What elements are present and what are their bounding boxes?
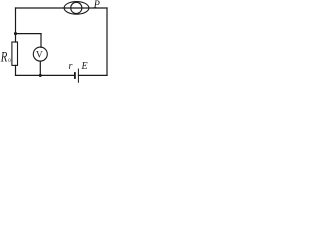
svg-text:P: P	[93, 0, 100, 11]
node: junction dot left branch	[14, 32, 17, 35]
lamp P: inner circle	[71, 2, 82, 13]
node: junction dot bottom rail	[39, 74, 42, 77]
lamp P: outer ellipse	[64, 2, 89, 15]
wire bottom rail left: resistor leg to battery	[16, 74, 74, 76]
wire bottom rail right: battery to right corner	[79, 74, 108, 76]
svg-text:R: R	[0, 48, 7, 65]
wire voltmeter branch vertical down to meter	[40, 34, 42, 48]
voltmeter V circle	[33, 47, 47, 61]
svg-text:V: V	[36, 51, 43, 61]
svg-text:0: 0	[8, 59, 11, 64]
resistor R0 body	[12, 42, 18, 65]
wire resistor bottom to bottom rail	[15, 65, 17, 75]
wire left side vertical top-left corner down to junction	[15, 8, 17, 34]
wire voltmeter branch horizontal	[16, 33, 42, 35]
wire voltmeter bottom lead	[39, 61, 41, 75]
svg-text:E: E	[81, 61, 88, 72]
battery positive plate (long thin)	[77, 69, 79, 82]
svg-text:r: r	[69, 61, 73, 72]
wire junction to resistor top	[15, 34, 17, 42]
wire right side vertical	[106, 8, 108, 75]
battery negative plate (short thick)	[74, 73, 76, 78]
wire top: left corner to right corner through lamp	[16, 7, 108, 9]
